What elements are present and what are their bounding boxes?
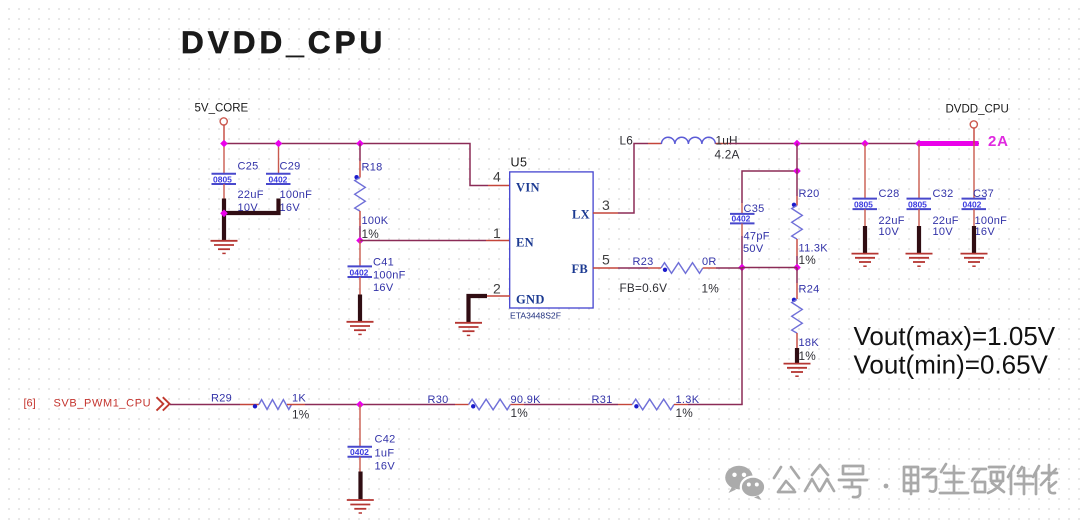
wire FB net right — [742, 267, 797, 269]
svg-text:Vout(max)=1.05V: Vout(max)=1.05V — [854, 321, 1056, 351]
svg-text:2: 2 — [493, 281, 501, 297]
watermark dot separator — [884, 484, 889, 489]
bus 2A segment — [919, 141, 979, 146]
watermark text — [774, 464, 1057, 497]
resistor R29 — [211, 393, 310, 422]
svg-text:R29: R29 — [211, 393, 232, 405]
svg-text:100K: 100K — [362, 215, 389, 227]
svg-text:16V: 16V — [373, 282, 394, 294]
wire bottom net 4 — [688, 404, 743, 406]
svg-text:SVB_PWM1_CPU: SVB_PWM1_CPU — [54, 398, 152, 410]
svg-text:LX: LX — [572, 208, 590, 222]
wire gnd thick C25/C29 — [222, 199, 279, 241]
svg-text:R23: R23 — [633, 256, 654, 268]
capacitor C37 — [962, 144, 1008, 239]
watermark wechat icon — [725, 466, 765, 500]
capacitor C25 — [212, 144, 264, 215]
svg-text:VIN: VIN — [516, 181, 540, 195]
svg-text:5V_CORE: 5V_CORE — [195, 103, 249, 115]
svg-text:1%: 1% — [799, 349, 817, 363]
svg-text:DVDD_CPU: DVDD_CPU — [181, 24, 386, 60]
svg-text:C37: C37 — [973, 188, 994, 200]
svg-text:1%: 1% — [676, 406, 694, 420]
wire gnd thick C42 — [358, 472, 362, 500]
svg-text:3: 3 — [602, 197, 610, 213]
wire gnd thick C41 — [358, 295, 362, 322]
svg-text:0805: 0805 — [854, 199, 873, 209]
power symbol 5V_CORE — [195, 103, 249, 144]
op-amp U5 (regulator IC) — [510, 156, 593, 321]
svg-text:0402: 0402 — [350, 447, 369, 457]
wire gnd thick U5 — [469, 296, 488, 322]
svg-text:1%: 1% — [799, 253, 817, 267]
resistor R24 — [792, 268, 820, 364]
svg-text:1uH: 1uH — [716, 134, 738, 148]
svg-text:C29: C29 — [280, 161, 301, 173]
wire gnd thick C28 — [863, 226, 867, 253]
svg-text:0402: 0402 — [732, 214, 751, 224]
junction C35 branch — [793, 167, 801, 175]
svg-text:FB: FB — [572, 262, 589, 276]
junction FB C35 — [738, 264, 746, 272]
capacitor C35 — [730, 203, 770, 268]
svg-text:0402: 0402 — [963, 199, 982, 209]
capacitor C42 — [348, 405, 396, 473]
svg-text:GND: GND — [516, 293, 545, 307]
svg-text:C32: C32 — [933, 188, 954, 200]
svg-text:C42: C42 — [375, 434, 396, 446]
resistor R31 — [592, 394, 700, 420]
wire 5V rail — [224, 144, 488, 186]
svg-text:16V: 16V — [280, 202, 301, 214]
resistor R30 — [428, 394, 542, 420]
wire bottom net 2 — [305, 404, 455, 406]
wire LX net — [618, 144, 648, 214]
ground GND R24 — [784, 364, 811, 377]
wire gnd thick R24 — [795, 348, 799, 363]
svg-text:0805: 0805 — [213, 174, 232, 184]
svg-text:R24: R24 — [799, 284, 820, 296]
svg-text:1%: 1% — [292, 408, 310, 422]
junction VOUT C28 — [861, 140, 869, 148]
wire bottom net 3 — [524, 404, 618, 406]
svg-text:R20: R20 — [799, 188, 820, 200]
wire VIN pin stub — [488, 185, 510, 187]
svg-text:[6]: [6] — [24, 398, 36, 410]
svg-text:1K: 1K — [292, 393, 306, 405]
svg-text:0805: 0805 — [908, 199, 927, 209]
svg-text:R18: R18 — [362, 162, 383, 174]
svg-text:10V: 10V — [879, 226, 900, 238]
svg-text:16V: 16V — [375, 461, 396, 473]
capacitor C41 — [348, 241, 406, 295]
svg-text:C25: C25 — [238, 161, 259, 173]
junction FB R20 — [793, 264, 801, 272]
ground GND C42 — [347, 500, 374, 513]
svg-text:R31: R31 — [592, 394, 613, 406]
ground GND C32 — [906, 254, 933, 267]
svg-text:C41: C41 — [373, 257, 394, 269]
resistor R23 — [618, 256, 742, 296]
svg-text:50V: 50V — [743, 243, 764, 255]
svg-text:10V: 10V — [933, 226, 954, 238]
svg-text:1uF: 1uF — [375, 448, 395, 460]
resistor R20 — [792, 144, 829, 268]
svg-text:1%: 1% — [702, 282, 720, 296]
ground GND C28 — [852, 254, 879, 267]
wire gnd thick C32 — [917, 226, 921, 253]
svg-text:5: 5 — [602, 252, 610, 268]
svg-text:1: 1 — [493, 225, 501, 241]
svg-text:ETA3448S2F: ETA3448S2F — [510, 311, 561, 321]
capacitor C32 — [907, 144, 959, 239]
ground GND C25 — [211, 241, 238, 254]
wire FB pin stub — [593, 267, 618, 269]
title DVDD_CPU — [181, 24, 386, 60]
wire gnd thick C37 — [972, 226, 976, 253]
svg-text:4: 4 — [493, 169, 501, 185]
ground GND C37 — [961, 254, 988, 267]
resistor R18 — [354, 144, 388, 242]
ground GND U5 — [455, 323, 482, 336]
wire LX pin stub — [593, 212, 618, 214]
port SVB_PWM1_CPU — [24, 397, 170, 410]
wire EN net — [360, 240, 486, 242]
svg-text:R30: R30 — [428, 394, 449, 406]
svg-text:16V: 16V — [975, 226, 996, 238]
svg-text:47pF: 47pF — [744, 231, 770, 243]
wire FB riser — [741, 268, 743, 405]
svg-text:1%: 1% — [362, 227, 380, 241]
svg-text:100nF: 100nF — [373, 270, 406, 282]
svg-text:18K: 18K — [799, 337, 820, 349]
svg-text:FB=0.6V: FB=0.6V — [620, 281, 668, 295]
svg-text:4.2A: 4.2A — [715, 148, 740, 162]
wire C35 branch — [742, 171, 797, 203]
svg-text:Vout(min)=0.65V: Vout(min)=0.65V — [854, 350, 1049, 380]
wire VOUT rail — [729, 143, 979, 145]
svg-text:1%: 1% — [511, 406, 529, 420]
capacitor C28 — [853, 144, 905, 239]
wire EN pin stub — [486, 240, 510, 242]
ground GND C41 — [347, 322, 374, 335]
junction rail C25 — [220, 140, 228, 148]
junction C42 — [356, 401, 364, 409]
wire GND pin stub — [485, 295, 510, 297]
power symbol DVDD_CPU — [946, 104, 1009, 144]
svg-text:DVDD_CPU: DVDD_CPU — [946, 104, 1009, 116]
svg-text:L6: L6 — [620, 134, 634, 148]
junction rail R18 — [356, 140, 364, 148]
svg-text:U5: U5 — [511, 156, 528, 170]
wire bottom net 1 — [170, 404, 240, 406]
capacitor C29 — [266, 144, 312, 215]
svg-text:22uF: 22uF — [238, 189, 264, 201]
junction R18 EN — [356, 237, 364, 245]
junction rail C29 — [275, 140, 283, 148]
svg-text:EN: EN — [516, 236, 534, 250]
svg-text:C28: C28 — [879, 188, 900, 200]
svg-text:0402: 0402 — [269, 174, 288, 184]
svg-text:2A: 2A — [988, 133, 1009, 150]
svg-text:0R: 0R — [702, 256, 717, 268]
junction C25 gnd — [220, 210, 228, 218]
svg-text:0402: 0402 — [350, 267, 369, 277]
junction VOUT R20 — [793, 140, 801, 148]
svg-text:100nF: 100nF — [280, 189, 313, 201]
inductor L6 — [620, 134, 740, 162]
junction VOUT C32 — [915, 140, 923, 148]
